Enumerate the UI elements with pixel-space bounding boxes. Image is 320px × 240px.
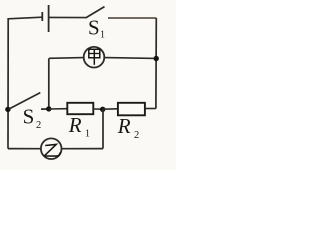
wire: bottom horizontal right of meter YI xyxy=(62,148,104,150)
wire: R1 to dot2 xyxy=(93,108,102,110)
switch S2 blade xyxy=(9,93,41,110)
meter YI circle xyxy=(41,138,62,159)
wire: S2 fixed contact stub xyxy=(41,108,49,110)
resistor R2 box xyxy=(118,103,145,116)
wire: left vertical xyxy=(7,18,9,149)
wire: top horizontal between battery and switch S1 xyxy=(49,16,86,18)
wire: R2 to right vertical corner xyxy=(145,108,156,110)
svg-text:1: 1 xyxy=(100,30,105,41)
wire: bottom horizontal left of meter YI xyxy=(8,148,41,150)
svg-text:2: 2 xyxy=(134,130,139,141)
svg-text:R: R xyxy=(117,114,131,138)
meter YI character (zigzag stroke) xyxy=(45,144,61,156)
meter JIA circle xyxy=(84,47,105,68)
svg-text:2: 2 xyxy=(36,120,41,131)
svg-text:1: 1 xyxy=(85,129,90,140)
meter JIA character (middle horizontal) xyxy=(89,53,100,55)
svg-text:S: S xyxy=(88,15,100,39)
svg-text:R: R xyxy=(68,113,82,137)
battery short plate (negative) xyxy=(41,12,43,21)
wire: right vertical xyxy=(155,18,157,109)
resistor R1 box xyxy=(67,103,93,114)
wire: inner branch horizontal to meter xyxy=(49,57,84,60)
junction node on left vertical (S2 pivot) xyxy=(5,107,10,112)
junction node middle row left (dot1) xyxy=(46,106,51,111)
wire: top horizontal left segment xyxy=(8,17,42,19)
switch S1 blade xyxy=(86,7,105,18)
wire: dot2 to R2 xyxy=(103,108,118,110)
battery long plate (positive) xyxy=(48,5,50,32)
wire: inner vertical from meter branch to middle row xyxy=(48,58,50,109)
svg-text:S: S xyxy=(23,105,35,129)
junction node middle row right (dot2) xyxy=(100,107,105,112)
wire: dot1 to R1 xyxy=(49,108,68,110)
meter JIA character (box) xyxy=(89,49,100,58)
wire: vertical from dot2 down to bottom wire xyxy=(102,109,104,148)
meter JIA character (center vertical with tail) xyxy=(93,49,95,65)
wire: meter JIA to right vertical xyxy=(104,57,156,60)
junction node on right vertical xyxy=(154,56,159,61)
wire: top horizontal right of S1 to top-right corner xyxy=(108,17,156,19)
